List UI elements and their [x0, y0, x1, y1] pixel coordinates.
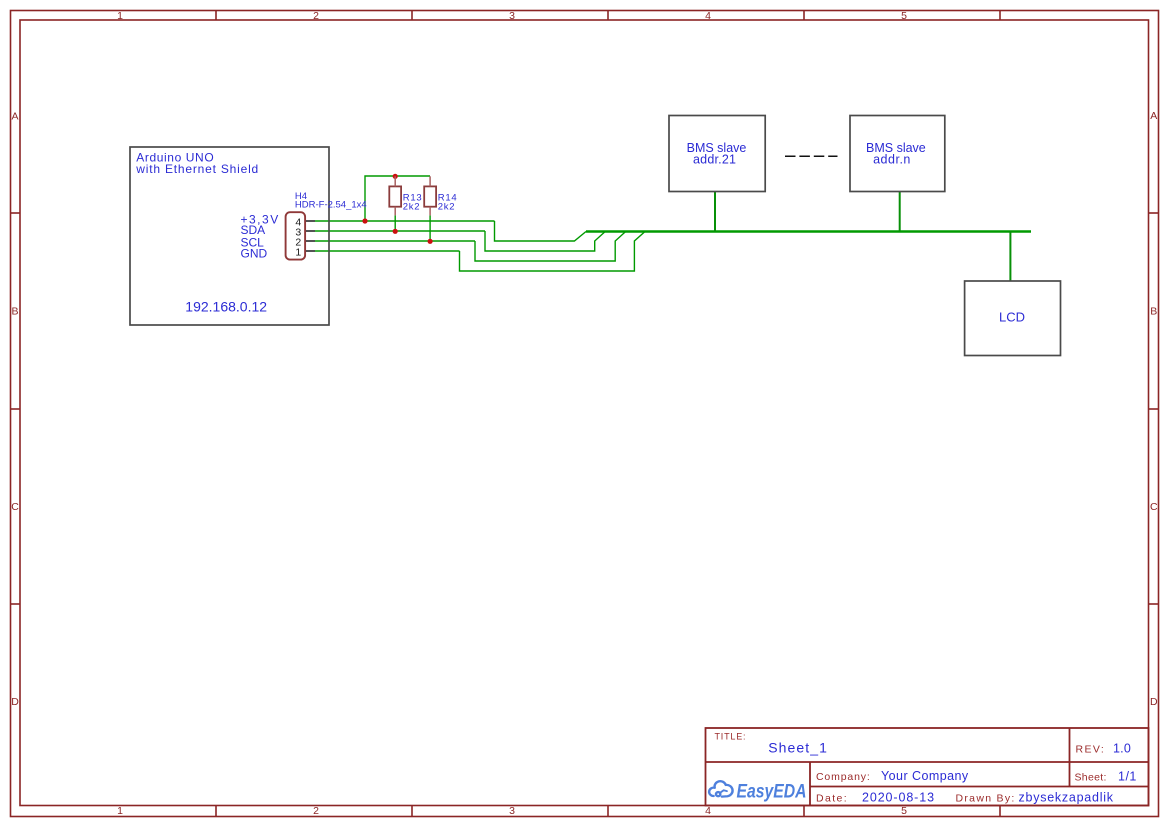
svg-text:1/1: 1/1 [1118, 770, 1137, 784]
svg-text:2k2: 2k2 [403, 202, 420, 213]
svg-text:2020-08-13: 2020-08-13 [862, 791, 935, 805]
svg-text:Company:: Company: [816, 771, 871, 783]
svg-text:1: 1 [295, 247, 301, 259]
svg-text:B: B [1150, 306, 1157, 318]
svg-text:D: D [1150, 696, 1158, 708]
svg-text:3: 3 [509, 805, 515, 817]
svg-text:5: 5 [901, 805, 907, 817]
svg-text:Sheet_1: Sheet_1 [768, 740, 828, 756]
svg-text:A: A [11, 111, 18, 123]
svg-text:B: B [11, 306, 18, 318]
svg-text:4: 4 [705, 10, 711, 22]
svg-text:5: 5 [901, 10, 907, 22]
svg-text:TITLE:: TITLE: [715, 732, 747, 742]
svg-text:A: A [1150, 110, 1157, 122]
svg-text:C: C [1150, 501, 1158, 513]
svg-text:GND: GND [241, 247, 268, 261]
svg-text:1: 1 [117, 10, 123, 22]
svg-text:EasyEDA: EasyEDA [737, 781, 807, 803]
svg-text:with Ethernet Shield: with Ethernet Shield [135, 162, 259, 176]
svg-text:D: D [11, 696, 19, 708]
svg-text:C: C [11, 501, 19, 513]
svg-text:192.168.0.12: 192.168.0.12 [185, 299, 267, 315]
svg-text:2k2: 2k2 [438, 202, 455, 213]
svg-text:addr.n: addr.n [873, 153, 911, 167]
svg-text:1.0: 1.0 [1113, 742, 1131, 756]
svg-text:addr.21: addr.21 [693, 153, 736, 167]
svg-text:1: 1 [117, 805, 123, 817]
svg-text:3: 3 [509, 10, 515, 22]
svg-text:Date:: Date: [816, 793, 848, 805]
svg-text:HDR-F-2.54_1x4: HDR-F-2.54_1x4 [295, 200, 367, 211]
svg-text:4: 4 [705, 805, 711, 817]
svg-text:Your Company: Your Company [881, 769, 969, 783]
svg-text:LCD: LCD [999, 310, 1025, 325]
svg-text:REV:: REV: [1076, 744, 1106, 756]
svg-text:zbysekzapadlik: zbysekzapadlik [1019, 791, 1114, 805]
svg-text:Sheet:: Sheet: [1075, 772, 1107, 784]
svg-text:Drawn By:: Drawn By: [956, 793, 1016, 805]
svg-text:2: 2 [313, 805, 319, 817]
svg-text:2: 2 [313, 10, 319, 22]
